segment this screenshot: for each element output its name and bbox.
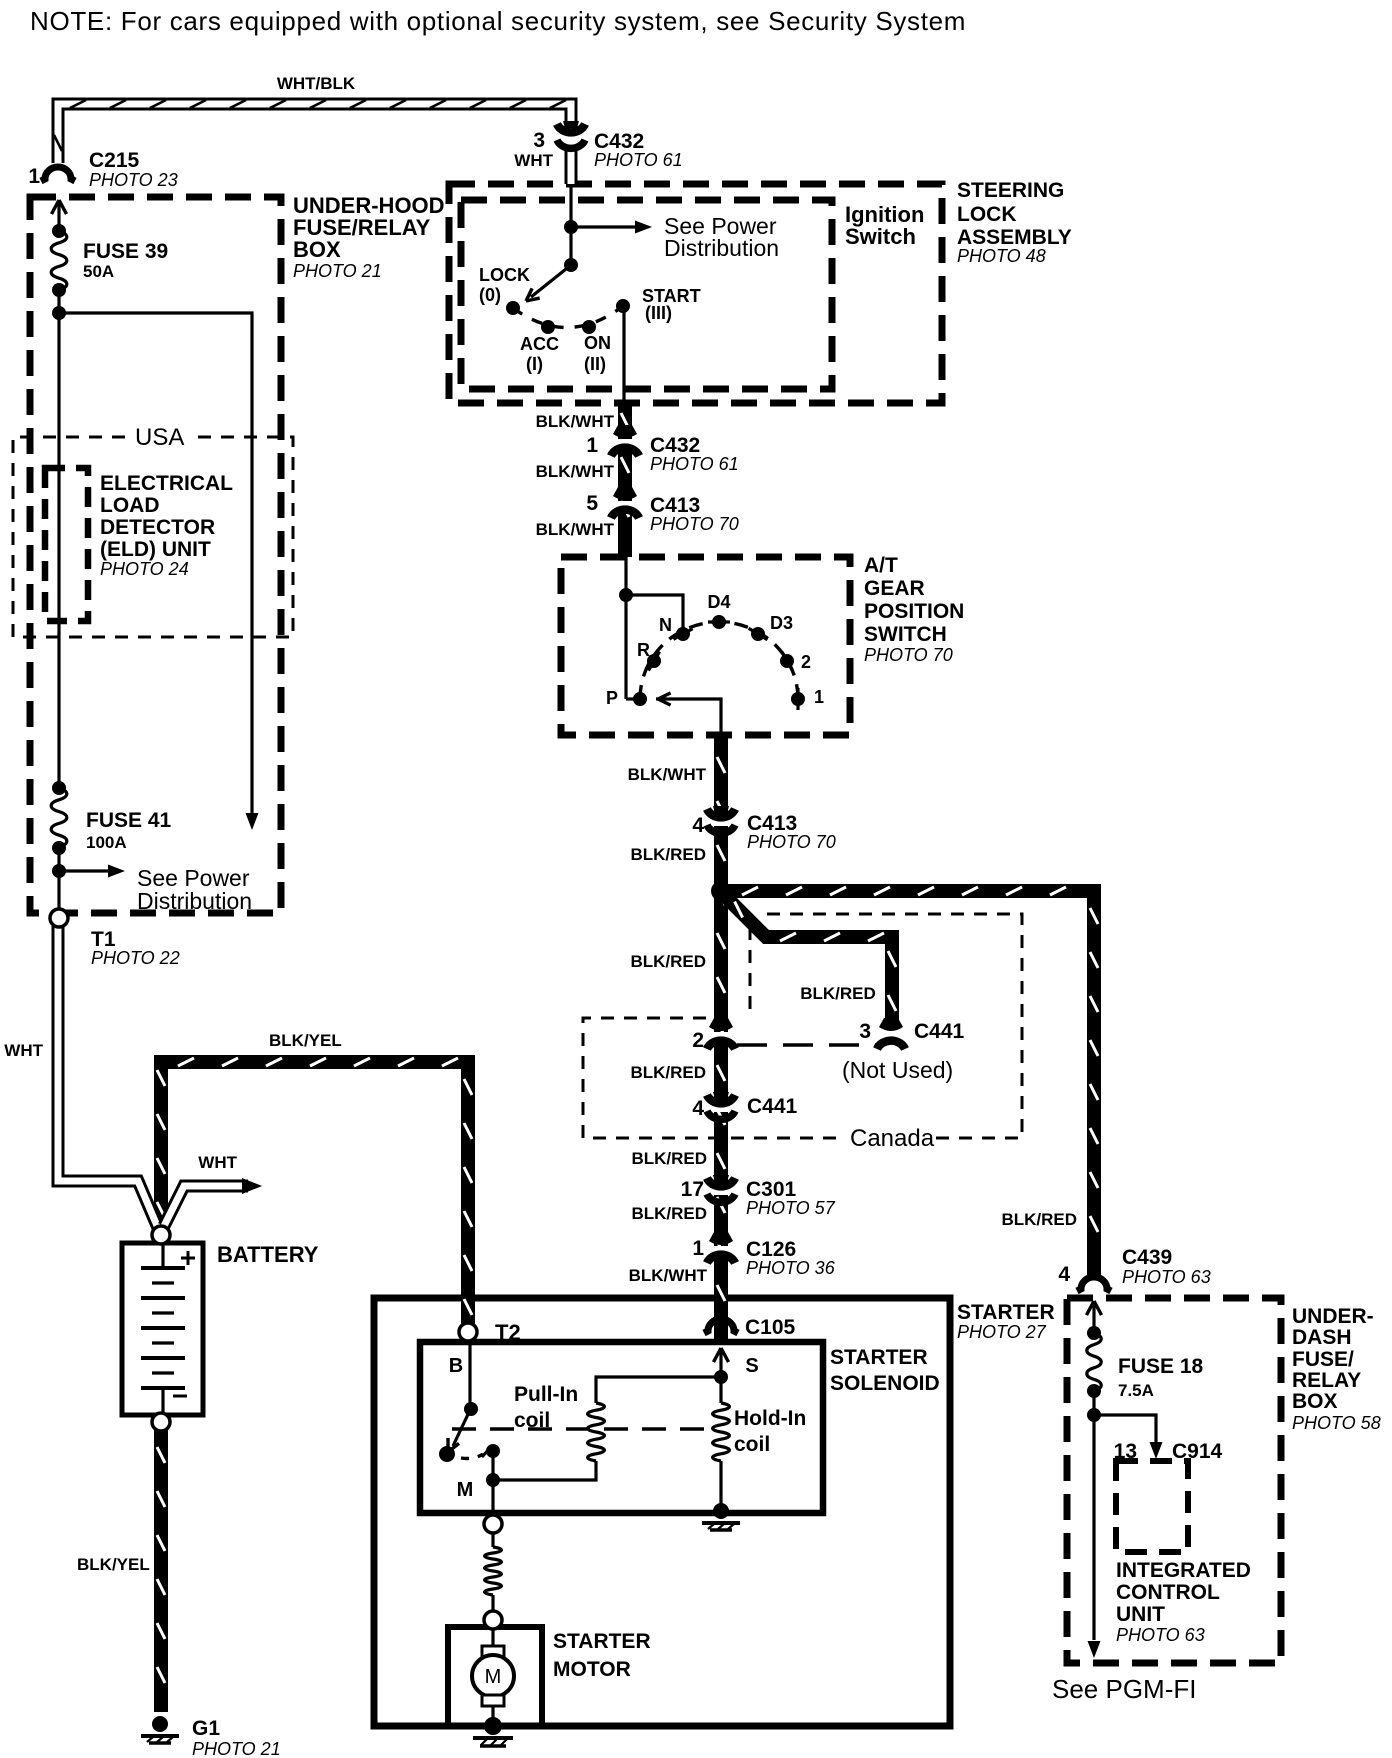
svg-text:1: 1 <box>692 1237 704 1260</box>
svg-text:UNDER-: UNDER- <box>1292 1305 1374 1328</box>
svg-text:G1: G1 <box>192 1717 220 1740</box>
svg-text:BATTERY: BATTERY <box>217 1242 319 1267</box>
svg-text:RELAY: RELAY <box>1292 1369 1361 1392</box>
svg-text:PHOTO 27: PHOTO 27 <box>957 1322 1047 1342</box>
svg-text:WHT: WHT <box>198 1153 237 1172</box>
svg-text:PHOTO 70: PHOTO 70 <box>864 645 953 665</box>
svg-text:T2: T2 <box>495 1320 521 1345</box>
svg-text:PHOTO 23: PHOTO 23 <box>89 170 178 190</box>
svg-text:C441: C441 <box>747 1095 798 1118</box>
svg-text:PHOTO 21: PHOTO 21 <box>192 1739 281 1758</box>
svg-text:2: 2 <box>801 652 811 672</box>
svg-text:C439: C439 <box>1122 1246 1172 1269</box>
svg-text:4: 4 <box>692 814 704 837</box>
svg-text:D3: D3 <box>770 613 793 633</box>
svg-text:17: 17 <box>681 1178 704 1201</box>
svg-text:50A: 50A <box>83 262 114 281</box>
svg-text:R: R <box>637 640 650 660</box>
svg-text:C914: C914 <box>1172 1440 1223 1463</box>
svg-text:4: 4 <box>692 1097 704 1120</box>
svg-text:PHOTO 70: PHOTO 70 <box>747 832 836 852</box>
svg-text:MOTOR: MOTOR <box>553 1658 631 1681</box>
svg-text:BLK/WHT: BLK/WHT <box>628 765 707 784</box>
svg-text:ACC: ACC <box>520 334 559 354</box>
svg-text:LOCK: LOCK <box>957 203 1017 226</box>
svg-text:BLK/RED: BLK/RED <box>1001 1210 1077 1229</box>
svg-text:PHOTO 63: PHOTO 63 <box>1122 1267 1211 1287</box>
svg-text:See PGM-FI: See PGM-FI <box>1052 1674 1196 1704</box>
svg-text:S: S <box>745 1355 758 1377</box>
svg-text:M: M <box>485 1666 502 1688</box>
svg-text:3: 3 <box>533 129 545 152</box>
svg-text:N: N <box>659 615 672 635</box>
svg-text:USA: USA <box>135 424 184 451</box>
svg-text:BLK/WHT: BLK/WHT <box>629 1266 708 1285</box>
svg-text:P: P <box>606 688 618 708</box>
svg-text:(ELD) UNIT: (ELD) UNIT <box>100 538 211 561</box>
svg-text:BLK/RED: BLK/RED <box>800 984 876 1003</box>
svg-text:B: B <box>449 1355 463 1377</box>
svg-text:coil: coil <box>734 1433 770 1456</box>
svg-text:CONTROL: CONTROL <box>1116 1581 1220 1604</box>
svg-text:BOX: BOX <box>293 237 341 262</box>
svg-text:(II): (II) <box>584 354 606 374</box>
svg-text:ELECTRICAL: ELECTRICAL <box>100 472 233 495</box>
svg-text:7.5A: 7.5A <box>1118 1381 1154 1400</box>
svg-text:5: 5 <box>586 492 598 515</box>
svg-text:STARTER: STARTER <box>553 1630 651 1653</box>
svg-text:D4: D4 <box>707 592 730 612</box>
svg-text:1: 1 <box>28 165 40 188</box>
svg-text:STARTER: STARTER <box>830 1346 928 1369</box>
svg-text:NOTE: For cars equipped with o: NOTE: For cars equipped with optional se… <box>30 6 966 36</box>
svg-text:BLK/YEL: BLK/YEL <box>269 1031 342 1050</box>
svg-text:100A: 100A <box>86 833 127 852</box>
svg-text:FUSE 41: FUSE 41 <box>86 809 172 832</box>
svg-text:BLK/RED: BLK/RED <box>631 1204 707 1223</box>
svg-text:FUSE 39: FUSE 39 <box>83 240 168 263</box>
svg-text:STARTER: STARTER <box>957 1301 1055 1324</box>
svg-text:2: 2 <box>692 1029 704 1052</box>
svg-text:1: 1 <box>586 434 598 457</box>
svg-text:ON: ON <box>584 333 611 353</box>
svg-text:LOAD: LOAD <box>100 494 160 517</box>
svg-text:(Not Used): (Not Used) <box>842 1057 953 1083</box>
svg-text:PHOTO 36: PHOTO 36 <box>746 1258 836 1278</box>
svg-text:PHOTO 24: PHOTO 24 <box>100 559 189 579</box>
svg-text:WHT: WHT <box>514 151 553 170</box>
svg-text:WHT/BLK: WHT/BLK <box>277 74 356 93</box>
svg-text:coil: coil <box>514 1409 550 1432</box>
svg-text:FUSE/: FUSE/ <box>1292 1348 1354 1371</box>
svg-text:DETECTOR: DETECTOR <box>100 516 215 539</box>
svg-text:Hold-In: Hold-In <box>734 1407 806 1430</box>
svg-text:BLK/RED: BLK/RED <box>630 1063 706 1082</box>
svg-text:DASH: DASH <box>1292 1326 1352 1349</box>
svg-text:M: M <box>457 1479 474 1501</box>
svg-text:Distribution: Distribution <box>664 235 779 261</box>
svg-text:13: 13 <box>1114 1440 1137 1463</box>
svg-text:STEERING: STEERING <box>957 179 1064 202</box>
svg-text:(0): (0) <box>479 285 501 305</box>
svg-text:BLK/RED: BLK/RED <box>630 845 706 864</box>
svg-text:Switch: Switch <box>845 224 916 249</box>
svg-text:BLK/YEL: BLK/YEL <box>77 1555 150 1574</box>
svg-text:Pull-In: Pull-In <box>514 1383 578 1406</box>
svg-text:PHOTO 61: PHOTO 61 <box>650 454 739 474</box>
svg-text:Distribution: Distribution <box>137 888 252 914</box>
svg-text:PHOTO 61: PHOTO 61 <box>594 150 683 170</box>
svg-text:PHOTO 21: PHOTO 21 <box>293 261 382 281</box>
svg-text:SOLENOID: SOLENOID <box>830 1372 940 1395</box>
svg-text:Canada: Canada <box>850 1125 935 1152</box>
svg-text:GEAR: GEAR <box>864 577 925 600</box>
svg-text:INTEGRATED: INTEGRATED <box>1116 1559 1251 1582</box>
svg-text:(I): (I) <box>526 354 543 374</box>
svg-text:BLK/WHT: BLK/WHT <box>536 412 615 431</box>
svg-text:LOCK: LOCK <box>479 265 530 285</box>
svg-text:BLK/WHT: BLK/WHT <box>536 462 615 481</box>
svg-text:C215: C215 <box>89 149 140 172</box>
svg-text:A/T: A/T <box>864 554 898 577</box>
svg-text:POSITION: POSITION <box>864 600 964 623</box>
svg-text:BLK/WHT: BLK/WHT <box>536 520 615 539</box>
svg-text:PHOTO 58: PHOTO 58 <box>1292 1413 1381 1433</box>
svg-text:C441: C441 <box>914 1020 965 1043</box>
svg-text:4: 4 <box>1058 1263 1070 1286</box>
svg-text:PHOTO 57: PHOTO 57 <box>746 1198 836 1218</box>
svg-text:PHOTO 70: PHOTO 70 <box>650 514 739 534</box>
svg-text:WHT: WHT <box>4 1041 43 1060</box>
svg-text:BLK/RED: BLK/RED <box>630 952 706 971</box>
svg-text:PHOTO 22: PHOTO 22 <box>91 948 180 968</box>
svg-text:3: 3 <box>859 1020 871 1043</box>
svg-text:FUSE 18: FUSE 18 <box>1118 1355 1204 1378</box>
svg-text:BOX: BOX <box>1292 1390 1338 1413</box>
svg-text:(III): (III) <box>645 303 672 323</box>
svg-text:PHOTO 48: PHOTO 48 <box>957 246 1046 266</box>
svg-text:UNIT: UNIT <box>1116 1603 1165 1626</box>
svg-text:BLK/RED: BLK/RED <box>631 1149 707 1168</box>
svg-text:SWITCH: SWITCH <box>864 623 947 646</box>
svg-text:1: 1 <box>814 687 824 707</box>
svg-text:C105: C105 <box>745 1316 796 1339</box>
svg-text:PHOTO 63: PHOTO 63 <box>1116 1625 1205 1645</box>
